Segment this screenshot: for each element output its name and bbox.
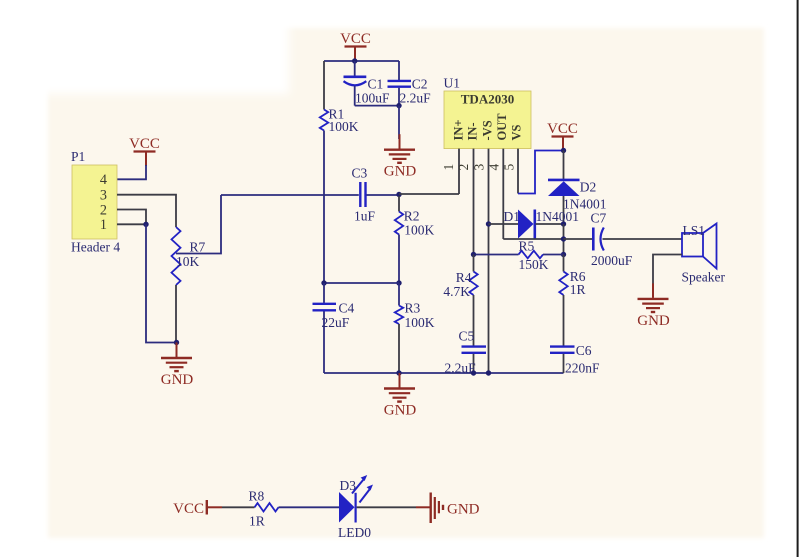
svg-text:VCC: VCC — [547, 121, 578, 137]
capacitor C4 22uF — [313, 283, 355, 373]
svg-text:1R: 1R — [570, 282, 586, 297]
svg-text:D1: D1 — [504, 209, 521, 224]
speaker LS1 — [682, 223, 726, 285]
svg-text:GND: GND — [161, 372, 194, 388]
wire P1 to ground junction — [146, 224, 177, 342]
node VCC / VS junction — [561, 148, 566, 153]
resistor R8 1R — [249, 489, 279, 529]
wire left rail lower — [323, 131, 325, 284]
capacitor C2 2.2uF — [388, 61, 432, 106]
svg-text:C5: C5 — [459, 329, 475, 344]
node -VS ground junction — [486, 370, 491, 375]
resistor R5 150K — [474, 238, 564, 271]
wire VCC rail top — [324, 60, 399, 62]
svg-text:R7: R7 — [190, 240, 206, 255]
svg-text:1N4001: 1N4001 — [536, 209, 580, 224]
wire diode node to OUT net — [563, 224, 565, 255]
svg-text:IN-: IN- — [466, 122, 480, 140]
op-amp U1 TDA2030 — [444, 76, 532, 149]
U1 pin 1 lead — [441, 149, 459, 194]
wire OUT to C7 — [564, 238, 593, 240]
svg-text:4: 4 — [100, 172, 107, 188]
wire D2 anode down — [563, 196, 565, 224]
node R5 right junction — [561, 252, 566, 257]
svg-text:VS: VS — [509, 124, 523, 140]
node R7 ground junction — [174, 340, 179, 345]
diode D1 1N4001 — [504, 209, 580, 239]
svg-text:C2: C2 — [412, 77, 428, 92]
svg-text:R3: R3 — [405, 301, 421, 316]
svg-text:5: 5 — [502, 164, 517, 171]
svg-text:C1: C1 — [368, 77, 384, 92]
svg-text:VCC: VCC — [340, 31, 371, 47]
node VCC rail junction — [352, 58, 357, 63]
wire VCC to R8 — [222, 506, 255, 508]
wire C1 to C2 bottom — [355, 105, 399, 107]
U1 pin 4 lead — [486, 149, 503, 239]
wire VCC to D2 cathode — [563, 151, 565, 180]
resistor R7 10K — [172, 225, 206, 343]
svg-text:C7: C7 — [591, 211, 607, 226]
capacitor C1 100uF — [344, 61, 391, 106]
resistor R1 100K — [320, 107, 359, 135]
svg-text:2: 2 — [456, 164, 471, 171]
resistor R4 4.7K — [443, 255, 477, 346]
svg-text:100K: 100K — [405, 315, 435, 330]
ground GND (LED row, sideways) — [416, 493, 480, 524]
svg-text:1R: 1R — [249, 514, 265, 529]
svg-text:LED0: LED0 — [338, 525, 371, 540]
svg-text:IN+: IN+ — [451, 119, 465, 140]
svg-text:R4: R4 — [456, 270, 472, 285]
wire D1 cathode to node — [536, 223, 564, 225]
wire OUT pin to node — [503, 238, 563, 240]
wire P1 pin 1 — [117, 223, 146, 225]
svg-text:D3: D3 — [340, 478, 357, 493]
capacitor C5 2.2uF — [445, 329, 487, 376]
node C3 / R2 / IN+ junction — [396, 192, 401, 197]
resistor R2 100K — [395, 196, 435, 283]
svg-text:GND: GND — [384, 403, 417, 419]
ground (speaker) — [637, 283, 670, 329]
node C4 top junction — [321, 280, 326, 285]
wire ground bus bottom — [324, 372, 564, 374]
svg-text:Header 4: Header 4 — [71, 240, 120, 255]
capacitor C3 1uF — [352, 166, 376, 224]
wire junction to C4 — [324, 282, 399, 284]
wire VCC to P1 pin 4 — [117, 165, 146, 179]
svg-text:-VS: -VS — [480, 120, 494, 140]
svg-text:P1: P1 — [71, 149, 85, 164]
svg-text:R2: R2 — [404, 209, 420, 224]
svg-text:100K: 100K — [329, 119, 359, 134]
wire LED to ground — [357, 506, 416, 508]
svg-text:4.7K: 4.7K — [443, 284, 470, 299]
svg-text:1: 1 — [441, 164, 456, 171]
svg-text:100uF: 100uF — [355, 91, 390, 106]
ground (mid) — [384, 373, 417, 419]
wire -VS to D1 — [489, 223, 519, 225]
U1 pin 5 lead — [502, 149, 518, 194]
svg-text:100K: 100K — [404, 223, 434, 238]
ground (P1) — [161, 343, 194, 389]
wire R7 wiper tap to input net — [176, 195, 221, 254]
wire VS to VCC — [518, 151, 564, 194]
svg-text:22uF: 22uF — [322, 315, 350, 330]
node C2 bottom junction — [396, 103, 401, 108]
connector P1 Header 4 — [71, 149, 120, 255]
svg-text:220nF: 220nF — [565, 361, 600, 376]
svg-text:VCC: VCC — [173, 501, 204, 517]
svg-text:4: 4 — [486, 164, 501, 171]
svg-text:C6: C6 — [576, 343, 592, 358]
svg-text:R8: R8 — [249, 489, 265, 504]
node D1/D2 junction — [561, 221, 566, 226]
wire left rail upper — [323, 61, 325, 110]
wire speaker return — [653, 255, 682, 286]
svg-text:GND: GND — [447, 502, 480, 518]
node OUT junction — [561, 236, 566, 241]
svg-text:2.2uF: 2.2uF — [400, 91, 432, 106]
wire IN+ to C3 node — [399, 193, 459, 195]
LED D3 LED0 — [338, 475, 373, 540]
diode D2 1N4001 — [548, 180, 607, 212]
svg-text:GND: GND — [637, 313, 670, 329]
node D1 anode / -VS junction — [486, 221, 491, 226]
svg-text:GND: GND — [384, 164, 417, 180]
U1 pin 3 lead — [472, 149, 489, 373]
node C5 ground junction — [471, 370, 476, 375]
svg-text:2000uF: 2000uF — [591, 253, 633, 268]
svg-text:3: 3 — [100, 188, 107, 204]
svg-text:Speaker: Speaker — [682, 270, 726, 285]
wire C7 to speaker — [603, 238, 683, 240]
svg-text:R5: R5 — [519, 238, 535, 253]
power flag VCC (LED row) — [173, 500, 222, 517]
U1 pin 2 lead — [456, 149, 473, 255]
svg-text:150K: 150K — [519, 257, 549, 272]
wire C3 to IN+ node — [367, 194, 400, 196]
svg-text:VCC: VCC — [129, 136, 160, 152]
capacitor C7 2000uF — [591, 211, 633, 268]
svg-text:1uF: 1uF — [354, 209, 376, 224]
wire P1 pin 3 to R7 — [117, 195, 176, 225]
power flag VCC (right) — [547, 121, 578, 151]
resistor R3 100K — [395, 283, 435, 373]
node R2 / R3 / C4 junction — [396, 280, 401, 285]
svg-text:LS1: LS1 — [683, 223, 706, 238]
power flag VCC (top) — [340, 31, 371, 61]
svg-text:1: 1 — [100, 217, 107, 233]
svg-text:D2: D2 — [580, 180, 597, 195]
node R3 ground junction — [396, 370, 401, 375]
svg-text:U1: U1 — [444, 76, 461, 91]
wire R8 to LED — [279, 506, 340, 508]
wire to top ground — [398, 106, 400, 139]
resistor R6 1R — [559, 255, 586, 346]
svg-text:OUT: OUT — [495, 113, 509, 141]
svg-text:C3: C3 — [352, 166, 368, 181]
svg-text:2: 2 — [100, 202, 107, 218]
ground (top) — [384, 134, 417, 180]
svg-text:C4: C4 — [339, 301, 355, 316]
svg-text:TDA2030: TDA2030 — [461, 92, 514, 107]
node P1 pins 1-2 junction — [143, 222, 148, 227]
wire input net to C3 — [221, 194, 359, 196]
svg-text:10K: 10K — [176, 254, 200, 269]
capacitor C6 220nF — [550, 343, 600, 376]
wire P1 pin 2 — [117, 210, 146, 225]
node IN- / R4 / R5 junction — [471, 252, 476, 257]
power flag VCC (P1) — [129, 136, 160, 166]
svg-text:3: 3 — [472, 164, 487, 171]
